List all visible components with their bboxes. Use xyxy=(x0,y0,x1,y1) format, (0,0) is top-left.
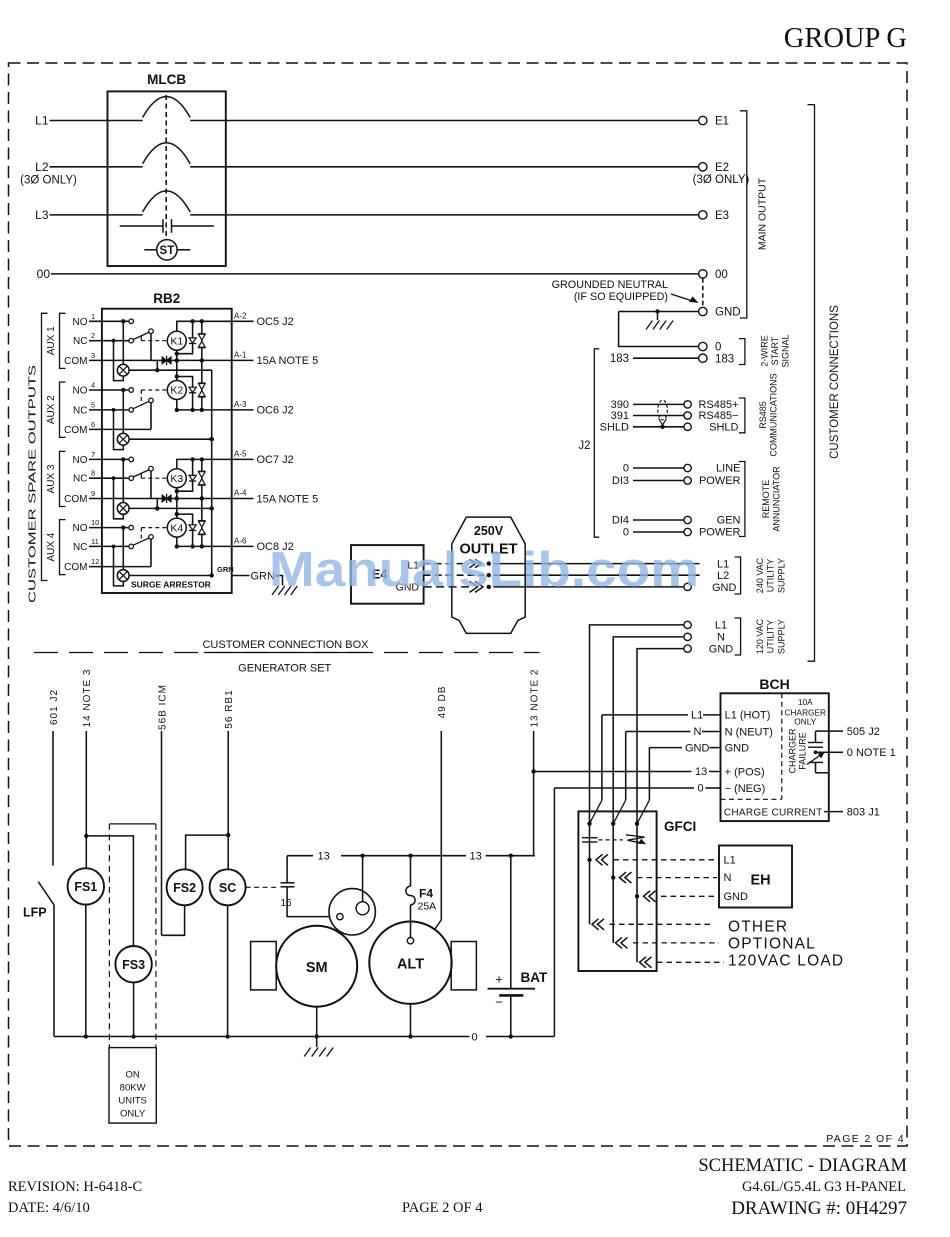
svg-text:+ (POS): + (POS) xyxy=(725,766,765,778)
svg-text:CHARGER: CHARGER xyxy=(788,728,798,774)
bracket CUSTOMER SPARE OUTPUTS xyxy=(42,313,48,580)
K2 output row xyxy=(177,409,232,411)
transient suppressor K1 xyxy=(201,321,203,360)
K1 top feed and output row xyxy=(177,321,232,331)
fuel solenoid FS2 xyxy=(167,869,203,905)
svg-text:1: 1 xyxy=(91,312,95,321)
relay board RB2 xyxy=(102,309,232,593)
breaker contact arc L1 xyxy=(143,97,191,118)
AUX 4 switch arm and pivot xyxy=(133,538,149,545)
surge arrestor 3 output row xyxy=(129,507,212,509)
svg-text:ON: ON xyxy=(125,1070,139,1081)
exit A-1 15A NOTE 5 xyxy=(232,359,254,361)
ALT negative connection xyxy=(410,1004,412,1037)
svg-text:(3Ø ONLY): (3Ø ONLY) xyxy=(20,175,77,187)
svg-text:NC: NC xyxy=(73,405,87,416)
wire 0 down to battery negative bus xyxy=(553,788,555,1037)
svg-text:A-3: A-3 xyxy=(234,400,247,409)
ground symbol GRN xyxy=(272,586,279,595)
svg-text:0: 0 xyxy=(715,342,721,354)
svg-text:CHARGE CURRENT: CHARGE CURRENT xyxy=(724,807,823,818)
ALT terminal block xyxy=(451,942,476,990)
flyback diode K2 xyxy=(177,377,193,410)
svg-text:PAGE 2 OF 4: PAGE 2 OF 4 xyxy=(826,1133,905,1145)
BCH feed GND branch xyxy=(649,747,682,749)
svg-text:RS485−: RS485− xyxy=(698,410,738,422)
ground symbol SM xyxy=(304,1048,311,1057)
svg-text:J2: J2 xyxy=(578,440,590,452)
svg-text:E3: E3 xyxy=(715,210,729,222)
GFCI breaker box xyxy=(578,811,656,971)
svg-text:L2: L2 xyxy=(717,570,729,582)
svg-text:601 J2: 601 J2 xyxy=(49,689,60,725)
GFCI GND pole xyxy=(635,822,639,826)
svg-text:NO: NO xyxy=(73,523,88,534)
bracket AUX 1 xyxy=(60,313,66,368)
wire 49 DB to ALT xyxy=(440,731,442,920)
svg-text:L3: L3 xyxy=(35,208,49,222)
wire 13 to BCH + POS xyxy=(534,771,692,773)
transient suppressor K2 xyxy=(201,360,203,410)
alternator ALT xyxy=(369,922,451,1004)
svg-text:NC: NC xyxy=(73,474,87,485)
svg-text:240 VAC: 240 VAC xyxy=(755,557,765,593)
svg-text:A-2: A-2 xyxy=(234,311,247,320)
svg-text:13 NOTE 2: 13 NOTE 2 xyxy=(529,668,540,727)
surge arrestor 1 output row xyxy=(129,369,212,371)
svg-text:OC6 J2: OC6 J2 xyxy=(257,405,294,417)
svg-text:14 NOTE 3: 14 NOTE 3 xyxy=(82,668,93,727)
svg-text:183: 183 xyxy=(610,353,629,365)
breaker CT / trip sensor xyxy=(120,225,163,227)
wire L1 to breaker xyxy=(50,120,143,122)
svg-text:UTILITY: UTILITY xyxy=(766,559,776,593)
svg-text:5: 5 xyxy=(91,400,95,409)
svg-text:GND: GND xyxy=(715,307,741,319)
svg-text:2-WIRE: 2-WIRE xyxy=(760,335,770,367)
svg-text:L2: L2 xyxy=(35,160,49,174)
wire L2 breaker to terminal E xyxy=(190,166,698,168)
receptacle E4 xyxy=(351,545,424,604)
starter contactor SC xyxy=(210,869,246,905)
bracket CUSTOMER CONNECTIONS xyxy=(808,105,815,662)
wire 16 to exciter xyxy=(287,887,337,917)
relay K3 actuator dashed link xyxy=(140,474,142,479)
svg-text:120VAC LOAD: 120VAC LOAD xyxy=(728,952,844,969)
svg-text:SUPPLY: SUPPLY xyxy=(777,619,787,654)
svg-text:ALT: ALT xyxy=(397,957,424,973)
svg-text:391: 391 xyxy=(611,410,629,422)
K4 output row xyxy=(177,545,232,547)
bracket J2 connector xyxy=(594,349,599,537)
svg-text:56B ICM: 56B ICM xyxy=(157,684,168,730)
svg-text:ManualsLib.com: ManualsLib.com xyxy=(269,542,699,597)
bracket 240 VAC UTILITY SUPPLY xyxy=(735,557,741,594)
svg-text:49 DB: 49 DB xyxy=(437,686,448,719)
svg-text:OPTIONAL: OPTIONAL xyxy=(728,936,816,953)
exit 505 J2 xyxy=(829,730,843,732)
terminal 183 xyxy=(699,354,707,362)
divider solid under label xyxy=(204,652,367,654)
exit 0 NOTE 1 xyxy=(829,751,843,753)
svg-text:START: START xyxy=(770,336,780,365)
svg-text:80KW: 80KW xyxy=(120,1083,146,1094)
terminal E3 xyxy=(699,211,707,219)
wire 14 NOTE 3 to FS1 xyxy=(85,731,87,868)
svg-text:NO: NO xyxy=(73,317,88,328)
AUX 1 NO branch down to surge arrestor xyxy=(122,321,124,364)
svg-text:FS2: FS2 xyxy=(173,881,196,895)
svg-text:A-6: A-6 xyxy=(234,536,247,545)
svg-text:CUSTOMER SPARE OUTPUTS: CUSTOMER SPARE OUTPUTS xyxy=(26,365,38,603)
svg-text:10: 10 xyxy=(91,518,99,527)
svg-text:N: N xyxy=(694,726,702,738)
svg-text:BAT: BAT xyxy=(521,970,548,985)
svg-text:COM: COM xyxy=(64,356,87,367)
svg-text:N: N xyxy=(717,632,725,644)
wire 120VAC GND xyxy=(637,649,684,824)
divider dashed line xyxy=(34,652,540,654)
COM row jog and fuse link row AUX3 xyxy=(151,498,162,500)
SM ground connection xyxy=(316,1007,318,1037)
svg-text:ANNUNCIATOR: ANNUNCIATOR xyxy=(772,466,782,532)
terminal GND 240VAC xyxy=(684,583,691,590)
svg-text:MAIN OUTPUT: MAIN OUTPUT xyxy=(756,177,768,250)
branch 56 RB1 to FS2 xyxy=(186,835,229,869)
svg-text:AUX 1: AUX 1 xyxy=(46,326,57,355)
svg-text:CUSTOMER CONNECTION BOX: CUSTOMER CONNECTION BOX xyxy=(202,639,369,651)
outlet plug outline 250V xyxy=(452,517,525,633)
svg-text:00: 00 xyxy=(715,269,728,281)
terminal N 120VAC xyxy=(684,633,691,640)
relay coil K1 xyxy=(167,331,186,350)
svg-text:25A: 25A xyxy=(418,901,437,913)
starter motor SM xyxy=(276,926,357,1007)
breaker contact arc L2 xyxy=(143,143,191,164)
transient suppressor K4 xyxy=(201,499,203,547)
neutral bond dashed wire 00 to GND xyxy=(702,278,704,307)
svg-text:SURGE ARRESTOR: SURGE ARRESTOR xyxy=(131,580,211,590)
svg-text:CUSTOMER CONNECTIONS: CUSTOMER CONNECTIONS xyxy=(829,305,841,459)
surge arrestor 2 xyxy=(117,433,129,445)
svg-text:6: 6 xyxy=(91,420,95,429)
svg-text:8: 8 xyxy=(91,469,95,478)
surge arrestor 4 xyxy=(117,570,129,582)
svg-text:0 NOTE 1: 0 NOTE 1 xyxy=(847,747,896,759)
negative bus 0 xyxy=(54,1036,470,1038)
svg-text:15A NOTE 5: 15A NOTE 5 xyxy=(257,493,319,505)
svg-text:DI3: DI3 xyxy=(612,475,629,487)
AUX 1 switch arm and pivot xyxy=(133,332,149,339)
wire L3 breaker to terminal E xyxy=(190,214,698,216)
svg-text:LINE: LINE xyxy=(716,463,740,475)
svg-text:DATE: 4/6/10: DATE: 4/6/10 xyxy=(8,1200,90,1216)
BCH feed N branch xyxy=(626,731,691,733)
svg-text:GROUP G: GROUP G xyxy=(784,23,907,54)
svg-text:OC5 J2: OC5 J2 xyxy=(257,316,294,328)
bracket RS485 COMMUNICATIONS xyxy=(739,398,745,433)
svg-text:L1: L1 xyxy=(691,710,703,722)
svg-text:F4: F4 xyxy=(419,887,433,901)
svg-text:0: 0 xyxy=(623,527,629,539)
terminal E1 xyxy=(699,116,707,124)
option note box ON 80KW UNITS ONLY xyxy=(109,1048,156,1124)
svg-text:SHLD: SHLD xyxy=(600,422,629,434)
svg-text:A-4: A-4 xyxy=(234,489,247,498)
option boundary top xyxy=(109,823,155,825)
svg-text:SUPPLY: SUPPLY xyxy=(777,558,787,593)
switch LFP xyxy=(38,882,54,905)
GFCI sense transformer xyxy=(582,837,598,839)
wire GND outlet (dashed) xyxy=(424,586,469,588)
terminal 0 (2-wire start) xyxy=(699,342,707,350)
svg-text:RB2: RB2 xyxy=(153,291,180,306)
BCH internal dashed partition xyxy=(781,693,783,799)
wire 0 to BCH - NEG xyxy=(554,787,694,789)
shield junction dot xyxy=(660,425,664,429)
svg-text:AUX 3: AUX 3 xyxy=(46,464,57,493)
svg-text:GRN: GRN xyxy=(217,565,234,574)
wire L2 outlet (dashed) xyxy=(424,574,484,576)
exciter pilot circle xyxy=(329,889,375,935)
svg-text:3: 3 xyxy=(91,351,95,360)
svg-text:GND: GND xyxy=(685,742,710,754)
wire 13 rail xyxy=(287,855,313,857)
svg-text:SIGNAL: SIGNAL xyxy=(781,334,791,367)
svg-text:REMOTE: REMOTE xyxy=(761,480,771,519)
AUX 1 NC branch down to surge arrestor xyxy=(114,341,124,381)
terminal E2 xyxy=(699,163,707,171)
breaker trip linkage dashed line xyxy=(165,95,167,240)
wire GFCI to EH GND xyxy=(644,891,651,902)
surge arrestor 4 output row xyxy=(129,575,212,577)
GFCI trip arrow xyxy=(626,835,646,844)
svg-text:COMMUNICATIONS: COMMUNICATIONS xyxy=(769,373,779,456)
surge arrestor 3 xyxy=(117,503,129,515)
svg-text:N (NEUT): N (NEUT) xyxy=(725,726,773,738)
svg-text:GND: GND xyxy=(724,891,749,903)
K2 bottom connection xyxy=(176,400,178,410)
relay coil K3 xyxy=(167,469,186,488)
svg-text:0: 0 xyxy=(472,1032,478,1044)
svg-text:GROUNDED NEUTRAL: GROUNDED NEUTRAL xyxy=(552,279,668,291)
bracket AUX 3 xyxy=(60,451,66,506)
battery BAT xyxy=(510,856,512,989)
svg-text:OC7 J2: OC7 J2 xyxy=(257,454,294,466)
svg-text:00: 00 xyxy=(37,267,51,281)
svg-text:FAILURE: FAILURE xyxy=(797,732,807,770)
svg-text:ST: ST xyxy=(160,245,175,257)
fuse F4 25A xyxy=(406,886,415,905)
svg-text:REVISION: H-6418-C: REVISION: H-6418-C xyxy=(8,1179,142,1195)
flyback diode K4 xyxy=(177,514,193,546)
transient suppressor K3 xyxy=(201,459,203,498)
svg-text:EH: EH xyxy=(751,873,771,889)
wire 56 RB1 to SC xyxy=(227,731,229,869)
relay K2 actuator dashed link xyxy=(141,389,167,391)
wire 13 NOTE 2 riser xyxy=(533,731,535,856)
exit A-3 OC6 J2 xyxy=(232,409,254,411)
svg-text:UTILITY: UTILITY xyxy=(766,620,776,654)
wire 120VAC L1 xyxy=(590,625,685,824)
K3 top feed and output row xyxy=(177,459,232,468)
K2 top feed from previous row xyxy=(176,360,178,380)
SC actuator dashed link xyxy=(246,886,280,888)
svg-text:DRAWING #: 0H4297: DRAWING #: 0H4297 xyxy=(731,1198,907,1219)
AUX 3 NO branch down to surge arrestor xyxy=(122,459,124,502)
bracket 2-WIRE START SIGNAL xyxy=(739,339,745,365)
heater load EH xyxy=(719,846,792,908)
svg-text:(IF SO EQUIPPED): (IF SO EQUIPPED) xyxy=(574,291,668,303)
K4 top feed from previous row xyxy=(176,499,178,519)
K1 bottom connection xyxy=(176,350,178,360)
terminal GND xyxy=(699,307,707,315)
exit 803 J1 xyxy=(824,811,843,813)
svg-text:9: 9 xyxy=(91,489,95,498)
fuel solenoid FS3 xyxy=(115,946,151,982)
wire L1 breaker to terminal E xyxy=(190,120,698,122)
svg-text:E2: E2 xyxy=(715,162,729,174)
wire L3 to breaker xyxy=(50,214,143,216)
svg-text:GFCI: GFCI xyxy=(664,819,696,834)
svg-text:2: 2 xyxy=(91,331,95,340)
svg-text:SC: SC xyxy=(219,881,236,895)
svg-text:LFP: LFP xyxy=(23,906,47,920)
branch to FS3 xyxy=(86,836,133,946)
arrow to neutral bond xyxy=(671,294,694,302)
svg-text:K2: K2 xyxy=(170,385,183,397)
relay coil K4 xyxy=(167,518,186,537)
svg-text:POWER: POWER xyxy=(699,527,741,539)
K3 bottom connection xyxy=(176,488,178,499)
svg-text:AUX 2: AUX 2 xyxy=(46,395,57,424)
GFCI N pole xyxy=(611,822,615,826)
svg-text:10A: 10A xyxy=(798,697,813,707)
svg-text:13: 13 xyxy=(695,766,707,778)
bracket AUX 4 xyxy=(60,520,66,575)
svg-text:−: − xyxy=(495,995,503,1010)
wire GFCI spare L1 xyxy=(592,919,599,930)
svg-text:0: 0 xyxy=(623,463,629,475)
wire 120VAC N xyxy=(613,637,684,824)
svg-text:AUX 4: AUX 4 xyxy=(46,532,57,561)
svg-text:GND: GND xyxy=(725,742,750,754)
wire GFCI to EH N xyxy=(620,872,627,883)
svg-text:E1: E1 xyxy=(715,116,729,128)
breaker contact arc L3 xyxy=(143,191,191,212)
battery charger BCH xyxy=(721,693,829,821)
wire GND bus xyxy=(619,311,699,313)
terminal L1 120VAC xyxy=(684,621,691,628)
surge ground bus xyxy=(211,370,213,575)
svg-text:L1 (HOT): L1 (HOT) xyxy=(725,710,771,722)
svg-text:ONLY: ONLY xyxy=(120,1109,146,1120)
svg-text:K4: K4 xyxy=(170,522,183,534)
surge arrestor 2 output row xyxy=(129,438,212,440)
svg-text:4: 4 xyxy=(91,381,95,390)
bracket 120 VAC UTILITY SUPPLY xyxy=(735,618,741,655)
svg-text:K1: K1 xyxy=(170,335,183,347)
terminal 00 xyxy=(699,270,707,278)
option dashed boundary right xyxy=(155,824,157,1048)
svg-text:ONLY: ONLY xyxy=(794,716,816,726)
svg-text:120 VAC: 120 VAC xyxy=(755,618,765,654)
circuit breaker MLCB xyxy=(108,91,226,266)
svg-text:15A NOTE 5: 15A NOTE 5 xyxy=(257,355,319,367)
bracket AUX 2 xyxy=(60,382,66,437)
svg-text:13: 13 xyxy=(318,851,330,863)
COM row jog and fuse link row AUX1 xyxy=(151,359,162,361)
exit A-5 OC7 J2 xyxy=(232,458,254,460)
contact 16 xyxy=(281,882,295,884)
svg-text:L1: L1 xyxy=(724,854,736,866)
svg-text:505 J2: 505 J2 xyxy=(847,726,880,738)
wire GFCI to EH L1 xyxy=(596,854,603,865)
svg-text:A-5: A-5 xyxy=(234,449,247,458)
K4 bottom connection xyxy=(176,537,178,546)
svg-text:OTHER: OTHER xyxy=(728,919,788,936)
svg-text:GEN: GEN xyxy=(717,515,741,527)
wire GFCI spare N xyxy=(616,937,623,948)
ground symbol at neutral xyxy=(657,312,659,321)
svg-text:A-1: A-1 xyxy=(234,350,247,359)
svg-text:NO: NO xyxy=(73,455,88,466)
svg-text:COM: COM xyxy=(64,494,87,505)
shunt trip coil ST xyxy=(157,240,177,260)
SM terminal block xyxy=(251,942,277,990)
flyback diode K3 xyxy=(177,459,193,491)
relay K4 actuator dashed link xyxy=(141,527,167,529)
svg-text:(3Ø ONLY): (3Ø ONLY) xyxy=(693,174,750,186)
svg-text:− (NEG): − (NEG) xyxy=(725,783,766,795)
relay coil K2 xyxy=(167,381,186,400)
svg-text:MLCB: MLCB xyxy=(147,72,186,87)
svg-text:11: 11 xyxy=(91,537,99,546)
svg-text:DI4: DI4 xyxy=(612,515,629,527)
option dashed boundary left xyxy=(108,824,110,1048)
wire GFCI spare GND xyxy=(640,957,647,968)
twisted pair symbol xyxy=(658,400,668,420)
svg-text:SHLD: SHLD xyxy=(709,422,738,434)
wire L1 outlet (dashed) xyxy=(424,563,468,565)
exit A-6 OC8 J2 xyxy=(232,545,254,547)
svg-text:183: 183 xyxy=(715,353,734,365)
svg-text:PAGE 2 OF 4: PAGE 2 OF 4 xyxy=(402,1200,483,1216)
bracket REMOTE ANNUNCIATOR xyxy=(739,462,745,537)
BCH feed L1 branch xyxy=(602,714,688,716)
svg-text:NO: NO xyxy=(73,386,88,397)
svg-text:G4.6L/G5.4L G3 H-PANEL: G4.6L/G5.4L G3 H-PANEL xyxy=(742,1179,906,1195)
svg-text:SCHEMATIC - DIAGRAM: SCHEMATIC - DIAGRAM xyxy=(698,1156,907,1176)
wire 601 J2 to LFP xyxy=(52,731,54,866)
svg-text:K3: K3 xyxy=(170,473,183,485)
svg-text:COM: COM xyxy=(64,562,87,573)
svg-text:BCH: BCH xyxy=(759,676,789,692)
svg-text:SM: SM xyxy=(306,960,328,976)
svg-text:16: 16 xyxy=(281,898,293,909)
AUX 4 NC branch down to surge arrestor xyxy=(114,546,124,586)
svg-text:GENERATOR SET: GENERATOR SET xyxy=(238,663,331,675)
svg-text:NC: NC xyxy=(73,542,87,553)
charger failure relay contact xyxy=(815,731,817,742)
relay K1 actuator dashed link xyxy=(140,336,142,341)
svg-text:RS485: RS485 xyxy=(758,401,768,429)
svg-text:NC: NC xyxy=(73,336,87,347)
AUX 2 NC branch down to surge arrestor xyxy=(114,410,124,450)
AUX 4 NO branch down to surge arrestor xyxy=(122,528,124,570)
svg-text:GND: GND xyxy=(712,582,737,594)
svg-text:L1: L1 xyxy=(715,620,727,632)
